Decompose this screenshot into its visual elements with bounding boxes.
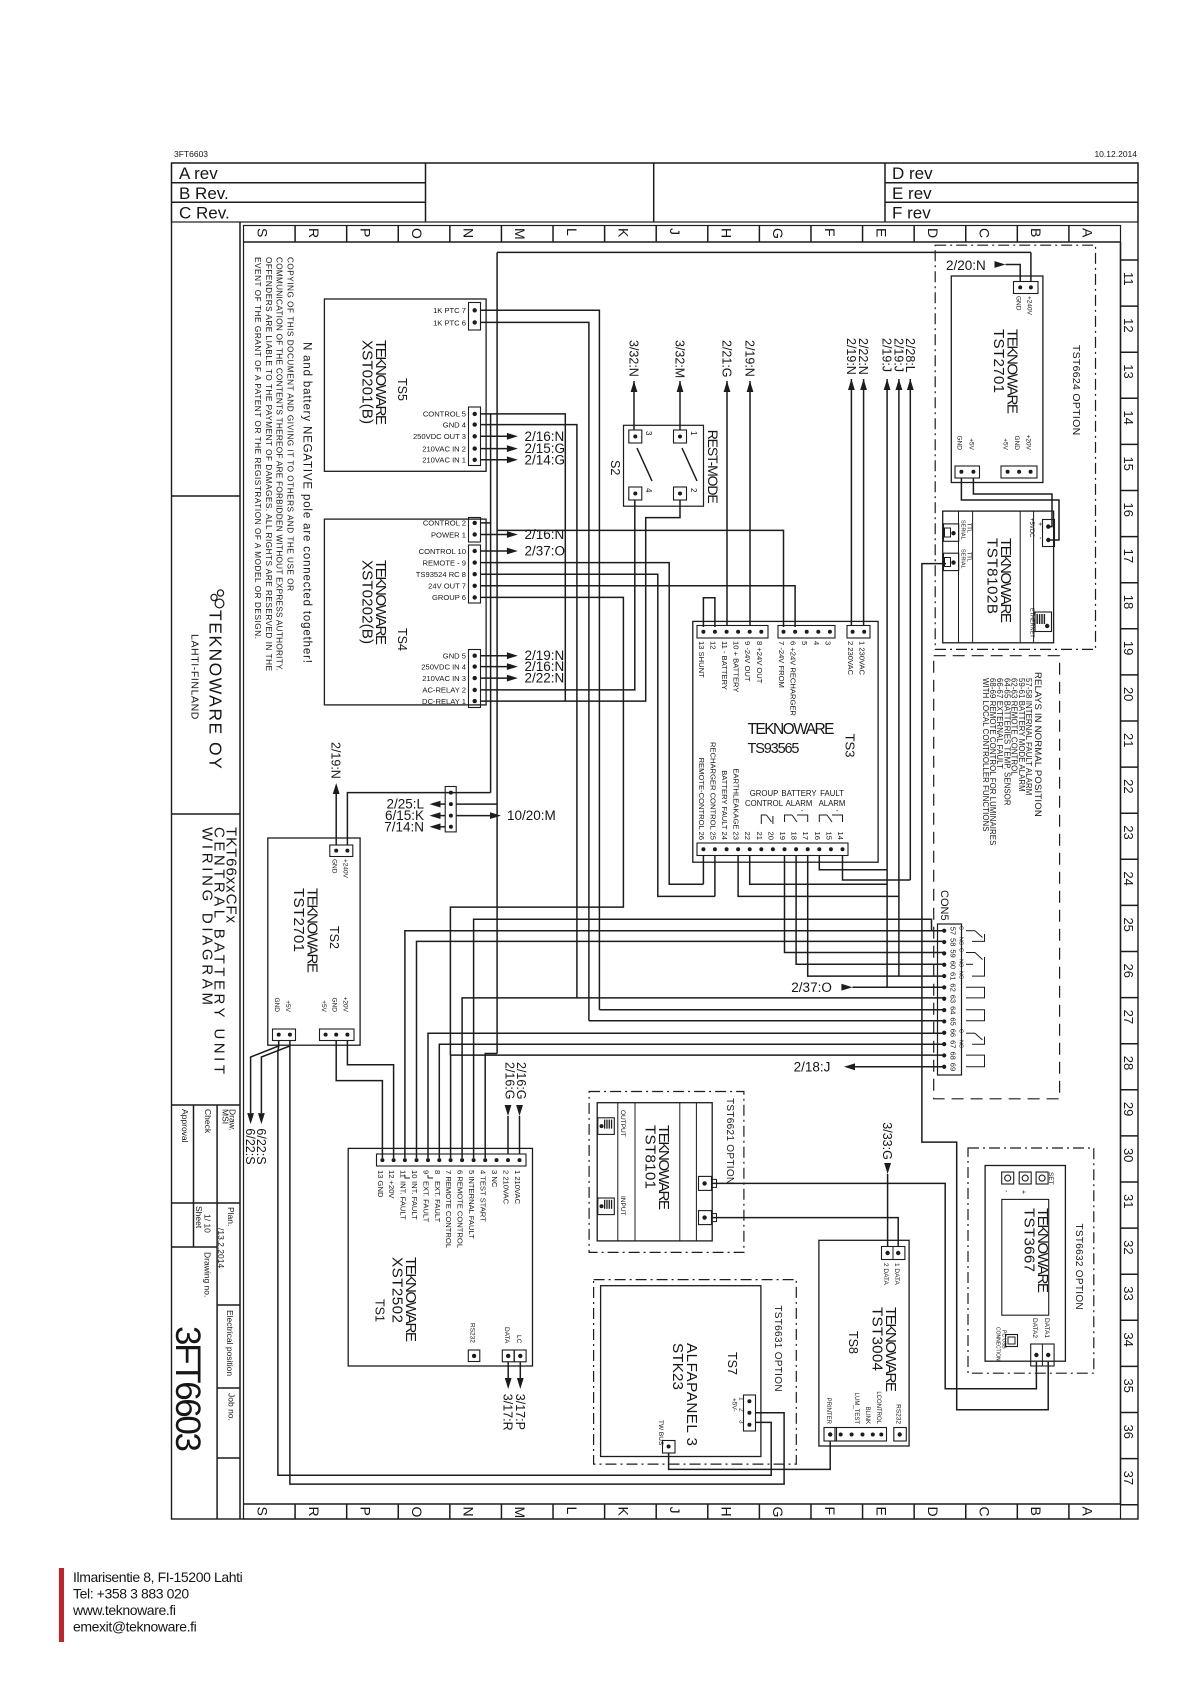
svg-text:RS232: RS232 — [895, 1404, 902, 1424]
connector CON5 — [938, 890, 985, 1075]
svg-text:14: 14 — [836, 832, 845, 840]
net 2/14:G — [481, 452, 566, 467]
svg-text:RECHARGER CONTROL 25: RECHARGER CONTROL 25 — [708, 742, 717, 840]
svg-text:58: 58 — [949, 938, 958, 946]
junction connector near TS2 — [445, 787, 456, 832]
relays option box with note — [934, 656, 1060, 1099]
svg-text:12 +20V: 12 +20V — [387, 1170, 396, 1199]
svg-text:+5V-: +5V- — [731, 1398, 738, 1412]
svg-text:11: 11 — [398, 1170, 407, 1178]
svg-text:DATA2: DATA2 — [1031, 1318, 1038, 1338]
wire TS3 pin7 feed — [497, 530, 783, 627]
svg-text:XST0202(B): XST0202(B) — [359, 560, 376, 644]
svg-text:SET: SET — [1047, 1172, 1054, 1185]
wire TS4 DCRELAY1 to S2-2 — [481, 500, 680, 701]
svg-text:Job no.: Job no. — [227, 1393, 237, 1421]
svg-text:DATA1: DATA1 — [1043, 1318, 1050, 1338]
svg-text:210VAC IN 3: 210VAC IN 3 — [422, 674, 466, 683]
svg-text:3FT6603: 3FT6603 — [168, 1326, 207, 1452]
net 3/17:R — [501, 1362, 515, 1431]
svg-text:TST6632 OPTION: TST6632 OPTION — [1073, 1224, 1084, 1310]
svg-text:MSI: MSI — [221, 1109, 231, 1124]
net 6/15:K — [385, 808, 445, 823]
svg-text:2/22:N: 2/22:N — [856, 338, 870, 375]
svg-text:TS7: TS7 — [725, 1352, 739, 1375]
svg-text:34: 34 — [1121, 1332, 1136, 1346]
svg-text:E: E — [873, 1507, 889, 1516]
wire CON5 66 from TS1 p9 — [428, 1033, 944, 1158]
wire TS2 +240V — [336, 793, 490, 845]
revision table — [172, 163, 1139, 223]
svg-text:CON5: CON5 — [938, 890, 950, 921]
svg-text:H: H — [719, 1507, 735, 1517]
svg-text:2/22:N: 2/22:N — [525, 671, 565, 686]
title block — [172, 222, 240, 1519]
wire TST2701 5V to TST8102B — [961, 478, 1059, 540]
svg-text:LCONTROL: LCONTROL — [875, 1391, 881, 1424]
svg-text:ALARM: ALARM — [819, 799, 846, 808]
wire TS5 PTC7 — [481, 310, 599, 1009]
net 2/19:J — [891, 338, 905, 390]
svg-text:7/14:N: 7/14:N — [384, 819, 424, 834]
panel TS7 ALFAPANEL 3 STK23 (TST6631 option) — [594, 1280, 797, 1465]
svg-text:20: 20 — [1121, 687, 1136, 701]
svg-text:RS232: RS232 — [469, 1323, 476, 1343]
svg-text:5 INTERNAL FAULT: 5 INTERNAL FAULT — [467, 1170, 476, 1239]
svg-text:INT. FAULT: INT. FAULT — [398, 1181, 407, 1220]
wire TTL serial to TST3667 DATA1 — [922, 564, 1048, 1410]
svg-text:2: 2 — [689, 488, 698, 493]
wire TST8101 OUTPUT to TST3667 DATA2 — [712, 1183, 1036, 1388]
svg-text:2 230VAC: 2 230VAC — [846, 641, 855, 676]
net 3/33:G — [880, 1122, 894, 1246]
I/O module TST8101 (TST6621 option) — [589, 1092, 744, 1253]
svg-text:15: 15 — [1121, 456, 1136, 470]
svg-text:R: R — [306, 228, 322, 238]
wire TS4 ACRELAY2 to S2-4 — [481, 500, 635, 690]
svg-text:WIRING DIAGRAM: WIRING DIAGRAM — [199, 827, 216, 1005]
svg-text:250VDC OUT 3: 250VDC OUT 3 — [413, 432, 466, 441]
svg-text:TS2: TS2 — [327, 926, 341, 949]
svg-text:13: 13 — [1121, 364, 1136, 378]
svg-text:H: H — [719, 228, 735, 238]
svg-text:S2: S2 — [608, 460, 622, 475]
svg-text:Tel: +358 3 883 020: Tel: +358 3 883 020 — [73, 1586, 189, 1602]
svg-text:TEKNOWARE: TEKNOWARE — [748, 721, 835, 738]
svg-text:+240V: +240V — [342, 859, 349, 879]
svg-text:GND: GND — [956, 436, 963, 451]
svg-text:4: 4 — [812, 641, 821, 645]
svg-text:15: 15 — [824, 832, 833, 840]
net 2/19:N — [844, 338, 858, 390]
svg-text:POWER 1: POWER 1 — [431, 530, 466, 539]
note N and battery — [301, 342, 313, 663]
svg-text:GND 5: GND 5 — [443, 652, 466, 661]
svg-text:28: 28 — [1121, 1056, 1136, 1070]
svg-text:3/17:P: 3/17:P — [513, 1394, 527, 1430]
svg-text:F: F — [822, 228, 838, 237]
svg-text:C: C — [958, 1029, 964, 1033]
svg-text:30: 30 — [1121, 1148, 1136, 1162]
wire TS2 GND to TS1 13 — [336, 1040, 382, 1158]
wire CON5 65 — [589, 1020, 944, 1022]
drawing title text — [199, 827, 240, 1074]
net 2/28:L — [903, 338, 917, 390]
wire TS5 GND4 — [481, 425, 577, 998]
svg-text:13 GND: 13 GND — [376, 1170, 385, 1198]
svg-text:L: L — [564, 1507, 580, 1515]
charger unit TS3 TS93565 — [693, 621, 878, 862]
net 2/18:J at CON5 — [794, 1059, 945, 1074]
svg-text:7 -24V FROM: 7 -24V FROM — [777, 641, 786, 688]
svg-text:C: C — [958, 948, 964, 952]
svg-text:59: 59 — [949, 949, 958, 957]
svg-text:33: 33 — [1121, 1286, 1136, 1300]
svg-text:TS8: TS8 — [846, 1331, 860, 1354]
svg-text:A: A — [1080, 228, 1096, 238]
svg-text:23: 23 — [1121, 825, 1136, 839]
svg-text:3/33:G: 3/33:G — [880, 1122, 894, 1160]
svg-text:4: 4 — [644, 488, 653, 493]
svg-text:Sheet: Sheet — [194, 1206, 204, 1229]
svg-text:61: 61 — [949, 972, 958, 980]
svg-text:24V OUT 7: 24V OUT 7 — [428, 582, 466, 591]
svg-text:8: 8 — [433, 1170, 442, 1174]
net 2/19:N at TS2 — [329, 742, 343, 794]
wire TS3 p17 to CON5 61 — [808, 856, 945, 977]
net 7/14:N — [384, 819, 445, 834]
wire TS4 GROUP6 to CON5 68 — [450, 597, 623, 1055]
svg-text:AC-RELAY 2: AC-RELAY 2 — [422, 686, 466, 695]
svg-text:C: C — [958, 926, 964, 930]
svg-text:INPUT: INPUT — [619, 1196, 626, 1216]
svg-text:G: G — [770, 1507, 786, 1518]
Teknoware OY logo — [189, 590, 226, 770]
svg-text:67: 67 — [949, 1040, 958, 1048]
svg-text:TS3: TS3 — [843, 734, 858, 758]
svg-text:20: 20 — [766, 832, 775, 840]
svg-text:GND: GND — [1013, 436, 1020, 451]
net 3/32:M — [673, 340, 687, 392]
wire TS2 +20V to TS1 12 — [347, 1040, 393, 1158]
svg-text:J: J — [667, 1507, 683, 1514]
svg-text:2/14:G: 2/14:G — [525, 452, 566, 467]
svg-text:12: 12 — [708, 641, 717, 649]
net 3/32:N — [627, 340, 641, 392]
svg-text:13 SHUNT: 13 SHUNT — [697, 641, 706, 678]
svg-text:TST8102B: TST8102B — [984, 538, 1001, 614]
svg-text:64: 64 — [949, 1006, 958, 1014]
svg-text:3/32:M: 3/32:M — [673, 340, 687, 378]
net 2/19:N — [481, 648, 565, 663]
svg-text:3/32:N: 3/32:N — [627, 340, 641, 377]
svg-text:6 REMOTE CONTROL: 6 REMOTE CONTROL — [456, 1170, 465, 1248]
svg-text:+5V: +5V — [320, 1000, 327, 1012]
svg-text:N: N — [461, 228, 477, 238]
svg-text:18: 18 — [790, 832, 799, 840]
net 2/16:G pair above TS1 — [503, 1062, 529, 1154]
svg-text:19: 19 — [778, 832, 787, 840]
svg-text:B: B — [1028, 1507, 1044, 1516]
net 2/19:J — [880, 338, 894, 390]
svg-text:2/19:N: 2/19:N — [844, 338, 858, 375]
svg-text:26: 26 — [1121, 964, 1136, 978]
svg-text:2 210VAC: 2 210VAC — [502, 1170, 511, 1205]
svg-text:DATA: DATA — [503, 1327, 510, 1344]
svg-text:210VAC IN 1: 210VAC IN 1 — [422, 456, 466, 465]
svg-text:COPYING OF THIS DOCUMENT AND G: COPYING OF THIS DOCUMENT AND GIVING IT T… — [286, 257, 295, 591]
svg-text:REMOTE - 9: REMOTE - 9 — [423, 558, 466, 567]
net 2/16:N — [481, 527, 565, 542]
svg-text:REMOTE-CONTROL 26: REMOTE-CONTROL 26 — [697, 758, 706, 840]
svg-text:2/37:O: 2/37:O — [525, 544, 566, 559]
svg-text:PRINTER: PRINTER — [825, 1398, 831, 1425]
svg-text:TST3004: TST3004 — [869, 1307, 886, 1371]
svg-text:2/19:N: 2/19:N — [743, 340, 757, 377]
svg-text:R: R — [306, 1507, 322, 1517]
svg-text:WITH LOCAL CONTROLLER FUNCTION: WITH LOCAL CONTROLLER FUNCTIONS — [981, 678, 990, 832]
svg-text:65: 65 — [949, 1017, 958, 1025]
wire TS3 p18 to CON5 60 — [796, 856, 944, 965]
svg-text:2/37:O: 2/37:O — [791, 980, 832, 995]
wire TW BUS to PRINTER — [669, 1441, 831, 1469]
wire TST8101 INPUT to TS8 DATA1 — [712, 1218, 898, 1247]
svg-text:21: 21 — [755, 832, 764, 840]
svg-text:+5V: +5V — [284, 1000, 291, 1012]
svg-text:EXT. FAULT: EXT. FAULT — [433, 1181, 442, 1223]
svg-text:9: 9 — [422, 1170, 431, 1174]
net 2/25:L — [386, 797, 445, 812]
svg-text:210VAC IN 2: 210VAC IN 2 — [422, 444, 466, 453]
svg-text:TST6631 OPTION: TST6631 OPTION — [772, 1305, 783, 1391]
svg-text:LUM_TEST: LUM_TEST — [853, 1393, 859, 1425]
svg-text:BATTERY: BATTERY — [781, 789, 817, 798]
svg-text:68: 68 — [949, 1051, 958, 1059]
svg-text:B: B — [1028, 228, 1044, 237]
svg-text:2/21:G: 2/21:G — [720, 340, 734, 378]
svg-text:+20V: +20V — [342, 997, 349, 1013]
wire CON5 63 — [462, 998, 944, 1158]
net 2/37:O — [481, 544, 566, 559]
svg-text:Ilmarisentie 8, FI-15200 Lahti: Ilmarisentie 8, FI-15200 Lahti — [73, 1569, 243, 1585]
svg-text:BLINK: BLINK — [864, 1407, 870, 1424]
svg-text:1 210VAC: 1 210VAC — [513, 1170, 522, 1205]
copyright note — [253, 257, 294, 672]
svg-text:GND: GND — [331, 998, 338, 1013]
svg-text:OUTPUT: OUTPUT — [619, 1110, 626, 1137]
svg-text:63: 63 — [949, 995, 958, 1003]
svg-text:6/22:S: 6/22:S — [254, 1128, 268, 1164]
svg-text:14: 14 — [1121, 410, 1136, 424]
svg-text:D: D — [925, 228, 941, 238]
power supply TS2 TST2701 — [268, 838, 360, 1045]
svg-text:F: F — [822, 1507, 838, 1516]
svg-text:LC: LC — [515, 1335, 522, 1344]
terminal block TS5 XST0201(B) — [324, 299, 486, 471]
svg-text:Drawing no.: Drawing no. — [203, 1252, 213, 1297]
wire TS3 p19 to CON5 59 — [785, 856, 945, 953]
svg-text:TST6621 OPTION: TST6621 OPTION — [724, 1098, 735, 1184]
svg-text:1 DATA: 1 DATA — [893, 1263, 900, 1285]
svg-text:G: G — [770, 228, 786, 239]
svg-text:3FT6603: 3FT6603 — [174, 149, 208, 159]
svg-text:2/19:N: 2/19:N — [329, 742, 343, 779]
net 2/22:N — [481, 671, 565, 686]
terminal block TS4 XST0202(B) — [324, 518, 486, 708]
svg-text:BATTERY FAULT 24: BATTERY FAULT 24 — [720, 770, 729, 840]
svg-text:NC: NC — [958, 971, 964, 979]
svg-text:D rev: D rev — [892, 164, 933, 183]
svg-text:TST2701: TST2701 — [290, 888, 307, 952]
svg-text:NO: NO — [958, 959, 964, 968]
svg-text:CONNECTION: CONNECTION — [995, 1327, 1001, 1361]
svg-text:E: E — [873, 228, 889, 237]
svg-text:25: 25 — [1121, 917, 1136, 931]
wire TS4 24VOUT7 to TS3 p6 — [481, 586, 795, 627]
svg-text:22: 22 — [743, 832, 752, 840]
svg-text:N and battery NEGATIVE pole ar: N and battery NEGATIVE pole are connecte… — [301, 342, 313, 663]
svg-text:NC: NC — [958, 937, 964, 945]
svg-text:+5V: +5V — [1002, 438, 1009, 450]
svg-text:NC: NC — [958, 1040, 964, 1048]
wire top bus to TST2701 — [497, 251, 1031, 253]
wire control bus vertical — [485, 252, 497, 1158]
svg-text:22: 22 — [1121, 779, 1136, 793]
wire TS3 p23 row — [738, 856, 899, 897]
svg-text:GND: GND — [273, 998, 280, 1013]
wire TS4 CONTROL2 — [481, 414, 491, 793]
svg-text:12: 12 — [1121, 318, 1136, 332]
svg-text:11 - BATTERY: 11 - BATTERY — [720, 641, 729, 690]
svg-text:Electrical position: Electrical position — [225, 1310, 235, 1376]
svg-text:36: 36 — [1121, 1425, 1136, 1439]
svg-text:M: M — [512, 1507, 528, 1519]
net 2/19:N — [743, 340, 757, 392]
svg-text:+5V: +5V — [968, 438, 975, 450]
svg-text:2/18:J: 2/18:J — [794, 1059, 831, 1074]
wire TS1 p5 to CON5 57 — [474, 919, 932, 1158]
power supply module TST2701 (TST6624 option) — [935, 245, 1095, 649]
ethernet module TST8102B — [943, 511, 1055, 643]
svg-text:CONTROL 10: CONTROL 10 — [419, 547, 466, 556]
svg-text:TS93524 RC 8: TS93524 RC 8 — [416, 570, 466, 579]
svg-text:Plan.: Plan. — [226, 1207, 236, 1226]
svg-text:C: C — [977, 1507, 993, 1517]
svg-text:Approval: Approval — [180, 1109, 190, 1143]
svg-text:3: 3 — [823, 641, 832, 645]
svg-text:1K PTC 6: 1K PTC 6 — [433, 318, 466, 327]
svg-text:6 +24V RECHARGER: 6 +24V RECHARGER — [789, 641, 798, 716]
svg-text:2/20:N: 2/20:N — [946, 258, 986, 273]
svg-text:L: L — [564, 228, 580, 236]
svg-text:CONTROL 5: CONTROL 5 — [423, 410, 466, 419]
svg-text:2 DATA: 2 DATA — [882, 1263, 889, 1285]
svg-text:COMMUNICATION OF THE CONTENTS: COMMUNICATION OF THE CONTENTS THEREOF AR… — [275, 257, 284, 671]
controller TS8 TST3004 — [819, 1240, 909, 1446]
svg-text:57: 57 — [949, 927, 958, 935]
svg-text:INT. FAULT: INT. FAULT — [410, 1181, 419, 1220]
svg-text:P: P — [357, 1507, 373, 1516]
svg-text:69: 69 — [949, 1063, 958, 1071]
svg-text:Check: Check — [203, 1109, 213, 1134]
svg-text:S: S — [254, 1507, 270, 1516]
svg-text:A: A — [1080, 1507, 1096, 1517]
svg-text:CONTROL: CONTROL — [745, 799, 784, 808]
wire TS3 p16 to CON5 62 — [819, 856, 887, 988]
net 6/22:S pair — [243, 1113, 268, 1164]
svg-text:ALARM: ALARM — [786, 799, 813, 808]
svg-text:OFFENDERS ARE LIABLE TO THE PA: OFFENDERS ARE LIABLE TO THE PAYMENT OF D… — [264, 257, 273, 672]
net 2/16:N — [481, 659, 565, 674]
svg-text:C: C — [977, 228, 993, 238]
net 2/16:N — [481, 429, 565, 444]
svg-text:4 TEST START: 4 TEST START — [479, 1170, 488, 1222]
net 2/22:N — [856, 338, 870, 390]
svg-text:TS1: TS1 — [373, 1299, 387, 1322]
svg-text:10/20:M: 10/20:M — [507, 808, 556, 823]
svg-text:GND 4: GND 4 — [443, 420, 466, 429]
svg-text:19: 19 — [1121, 641, 1136, 655]
svg-text:1 230VAC: 1 230VAC — [858, 641, 867, 676]
svg-text:3: 3 — [644, 431, 653, 436]
svg-text:TST8101: TST8101 — [642, 1125, 659, 1189]
svg-text:J: J — [667, 228, 683, 235]
svg-text:66: 66 — [949, 1029, 958, 1037]
svg-text:+: + — [1036, 522, 1043, 526]
svg-text:/13.2.2014: /13.2.2014 — [216, 1228, 226, 1268]
title block fields — [168, 1109, 238, 1452]
svg-text:32: 32 — [1121, 1240, 1136, 1254]
svg-text:10: 10 — [410, 1170, 419, 1178]
svg-text:10.12.2014: 10.12.2014 — [1094, 149, 1137, 159]
svg-text:emexit@teknoware.fi: emexit@teknoware.fi — [73, 1619, 197, 1635]
svg-text:M: M — [512, 228, 528, 240]
svg-text:29: 29 — [1121, 1102, 1136, 1116]
svg-text:1: 1 — [738, 1397, 745, 1401]
svg-text:CONTROL 2: CONTROL 2 — [423, 519, 466, 528]
svg-text:REST-MODE: REST-MODE — [705, 430, 721, 504]
wire junction pin2 — [456, 803, 497, 805]
svg-text:1K PTC 7: 1K PTC 7 — [433, 306, 466, 315]
svg-text:O: O — [409, 1507, 425, 1518]
svg-text:XST2502: XST2502 — [389, 1257, 406, 1323]
svg-text:www.teknoware.fi: www.teknoware.fi — [72, 1602, 176, 1618]
svg-text:ETHERNET: ETHERNET — [1029, 608, 1035, 638]
net 3/17:P — [513, 1362, 527, 1430]
svg-text:N: N — [461, 1507, 477, 1517]
wire TS3 p22 row — [750, 856, 887, 885]
svg-text:16: 16 — [1121, 503, 1136, 517]
net 2/21:G — [720, 340, 734, 392]
wire TS2 +5V rail — [261, 1040, 784, 1484]
wire TS4 REMOTE9 to TS3 p26 — [481, 563, 703, 885]
svg-text:B Rev.: B Rev. — [179, 184, 229, 203]
wire CON5 58 — [417, 941, 945, 1158]
svg-text:7 REMOTE CONTROL: 7 REMOTE CONTROL — [444, 1170, 453, 1248]
svg-text:+20V: +20V — [1025, 435, 1032, 451]
svg-text:TST6624 OPTION: TST6624 OPTION — [1070, 345, 1082, 436]
svg-text:K: K — [615, 228, 631, 238]
svg-text:18: 18 — [1121, 595, 1136, 609]
svg-text:TS93565: TS93565 — [748, 741, 800, 757]
svg-text:60: 60 — [949, 961, 958, 969]
svg-text:1: 1 — [689, 431, 698, 436]
svg-text:3 NC: 3 NC — [490, 1170, 499, 1188]
svg-text:C Rev.: C Rev. — [179, 204, 230, 223]
svg-text:21: 21 — [1121, 733, 1136, 747]
wire TS3 p14 — [843, 856, 911, 881]
svg-text:EARTHLEAKAGE 23: EARTHLEAKAGE 23 — [732, 768, 741, 840]
